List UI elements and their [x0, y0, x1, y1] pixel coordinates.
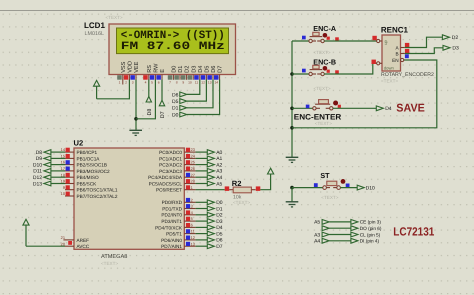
wire VCC to AVCC [26, 245, 65, 247]
wire U2 PD4/T0/XCK to D4 [196, 226, 208, 228]
wire ENC-B to encoder down pin [324, 63, 376, 74]
U2 pin PC1/ADC1 (24) [159, 154, 196, 162]
svg-text:FM 87.60 MHz: FM 87.60 MHz [121, 41, 225, 53]
U2 pin PC2/ADC2 (25) [159, 160, 196, 168]
svg-text:6: 6 [191, 223, 193, 228]
terminal A3 to CL (pin 5) link [314, 232, 381, 238]
wire U2 RESET to R2 [196, 189, 225, 191]
svg-text:PD2/INT0: PD2/INT0 [161, 213, 182, 218]
LCD pin 14 D7 [214, 66, 224, 85]
svg-text:D7: D7 [160, 111, 166, 118]
terminal D8 (LCD RS) [146, 97, 153, 116]
LCD pin 11 D4 [194, 66, 204, 85]
svg-text:A0: A0 [216, 150, 222, 156]
U2 pin PD2/INT0 (4) [161, 210, 195, 218]
terminal D2 [442, 35, 458, 41]
power VCC arrow for R2 [268, 168, 274, 174]
wire D10 to U2 PB2/SS/OC1B [51, 164, 65, 166]
svg-text:3: 3 [132, 81, 134, 85]
svg-text:12: 12 [191, 235, 195, 240]
U2 pin AREF (21) [61, 235, 89, 243]
svg-text:5: 5 [151, 81, 153, 85]
svg-text:up: up [383, 39, 388, 44]
power VCC arrow for LCD VDD [94, 80, 100, 98]
wire ST to terminal D10 [340, 187, 357, 189]
svg-text:<TEXT>: <TEXT> [381, 78, 398, 83]
wire terminal D5 to LCD pin [187, 80, 206, 102]
U2 pin PB0/ICP1 (14) [61, 147, 98, 155]
U2 pin PC6/RESET (1) [156, 185, 196, 193]
U2 pin PB5/SCK (19) [61, 179, 98, 187]
terminal A0 (U2 PC0/ADC0) [207, 150, 222, 156]
ENC-A state square [302, 36, 306, 40]
U2 pin PC3/ADC3 (26) [159, 166, 196, 174]
terminal D9 (U2 PB1/OC1A) [36, 156, 51, 162]
svg-text:3: 3 [191, 204, 193, 209]
svg-text:D3: D3 [216, 219, 223, 225]
U2 pin PD1/TXD (3) [162, 204, 195, 212]
wire D13 to U2 PB5/SCK [51, 183, 65, 185]
svg-text:D8: D8 [147, 109, 153, 116]
svg-text:D4: D4 [216, 225, 223, 231]
svg-text:D0: D0 [172, 112, 179, 118]
terminal D10 [357, 185, 375, 191]
terminal D5 (LCD data) [172, 99, 187, 105]
wire U2 PC2/ADC2 to A2 [196, 164, 208, 166]
wire U2 PC4/ADC4/SDA to A4 [196, 176, 208, 178]
svg-text:D13: D13 [33, 181, 42, 187]
svg-text:8: 8 [176, 81, 178, 85]
U2 pin PB6/TOSC1/XTAL1 (9) [63, 185, 118, 193]
terminal A1 (U2 PC1/ADC1) [207, 156, 222, 162]
terminal D3 (U2 PD3/INT1) [207, 219, 223, 225]
terminal D3 [443, 45, 459, 51]
svg-text:D4: D4 [198, 66, 204, 73]
svg-text:D10: D10 [33, 162, 42, 168]
terminal A5 to CE (pin 3) link [314, 220, 381, 226]
terminal (unlabelled) to DO (pin 6) link [322, 226, 382, 231]
svg-text:down: down [384, 65, 395, 70]
wire bus to ENC-A [292, 40, 309, 42]
terminal D0 (LCD data) [172, 112, 187, 118]
svg-text:11: 11 [191, 229, 195, 234]
svg-text:D2: D2 [452, 35, 459, 41]
terminal D12 (U2 PB4/MISO) [33, 175, 51, 181]
svg-text:A4: A4 [314, 239, 320, 245]
svg-text:<TEXT>: <TEXT> [106, 15, 123, 20]
resistor R2 [225, 179, 261, 205]
svg-text:ATMEGA8: ATMEGA8 [101, 254, 127, 260]
svg-text:E: E [160, 69, 166, 73]
svg-text:PB3/MOSI/OC2: PB3/MOSI/OC2 [77, 169, 110, 174]
microcontroller U2 body [74, 148, 184, 249]
svg-text:AREF: AREF [77, 238, 90, 243]
svg-text:D0: D0 [172, 66, 178, 73]
wire U2 PD3/INT1 to D3 [196, 220, 208, 222]
RENC1 pin B stub [401, 49, 410, 54]
wire D11 to U2 PB3/MOSI/OC2 [51, 170, 65, 172]
svg-text:ROTARY_ENCODER2: ROTARY_ENCODER2 [381, 72, 434, 78]
terminal D7 (U2 PD7/AIN1) [207, 244, 223, 250]
svg-text:<TEXT>: <TEXT> [101, 261, 118, 266]
svg-text:A5: A5 [314, 220, 320, 226]
wire U2 PC1/ADC1 to A1 [196, 157, 208, 159]
U2 pin PD7/AIN1 (13) [161, 241, 195, 249]
wire bus to ENC-ENTER [292, 107, 313, 109]
svg-text:D1: D1 [178, 66, 184, 73]
svg-text:D11: D11 [33, 169, 42, 175]
ENC-B state square [302, 69, 306, 73]
terminal D10 (U2 PB2/SS/OC1B) [33, 162, 51, 168]
rotary encoder RENC1 body [382, 35, 401, 71]
RENC1 down pin bubble [372, 60, 383, 65]
ENC-B right state square [335, 70, 339, 74]
junction VEE/RW/ground [134, 117, 138, 121]
wire terminal D1 to LCD pin [187, 80, 213, 108]
svg-text:D6: D6 [216, 238, 223, 244]
svg-text:CL (pin 5): CL (pin 5) [360, 232, 381, 237]
svg-text:PC5/ADC5/SCL: PC5/ADC5/SCL [149, 181, 183, 186]
junction bus/ENC-B [290, 72, 294, 76]
button ENC-ENTER [313, 100, 341, 110]
svg-text:PB7/TOSC2/XTAL2: PB7/TOSC2/XTAL2 [77, 194, 118, 199]
svg-text:A1: A1 [216, 156, 222, 162]
U2 pin PB2/SS/OC1B (16) [61, 160, 107, 168]
svg-text:PB1/OC1A: PB1/OC1A [77, 156, 101, 161]
wire LCD VEE to ground [135, 80, 137, 130]
svg-text:D3: D3 [452, 46, 459, 52]
svg-text:D8: D8 [36, 150, 43, 156]
svg-text:PD1/TXD: PD1/TXD [162, 206, 182, 211]
svg-text:PC2/ADC2: PC2/ADC2 [159, 163, 182, 168]
ST right state square [346, 184, 350, 188]
svg-text:2: 2 [125, 81, 127, 85]
U2 pin PD6/AIN0 (12) [161, 235, 195, 243]
svg-text:D2: D2 [185, 66, 191, 73]
terminal D13 (U2 PB5/SCK) [33, 181, 51, 187]
power VCC arrow for AVCC [23, 219, 29, 246]
wire D8 to U2 PB0/ICP1 [51, 151, 65, 153]
wire U2 PD7/AIN1 to D7 [196, 245, 208, 247]
LCD pin 3 VEE [130, 61, 140, 84]
LCD LM016L body [109, 24, 236, 75]
terminal A5 (U2 PC5/ADC5/SCL) [207, 181, 222, 187]
wire R2 to VCC [260, 174, 270, 190]
svg-text:9: 9 [63, 185, 65, 190]
svg-text:AVCC: AVCC [77, 244, 90, 249]
svg-text:<-OMRIN-> ((ST)): <-OMRIN-> ((ST)) [121, 29, 225, 42]
svg-text:13: 13 [191, 241, 195, 246]
button ENC-B [309, 65, 330, 75]
LCD VSS stub (floating) [122, 80, 124, 85]
junction bus/ENC-ENTER [290, 107, 294, 111]
button ST [323, 179, 346, 189]
svg-text:PD3/INT1: PD3/INT1 [161, 219, 182, 224]
wire ST junction to ground [291, 188, 293, 202]
terminal D6 (U2 PD6/AIN0) [207, 238, 223, 244]
svg-text:D7: D7 [216, 244, 223, 250]
terminal D1 (LCD data) [172, 105, 187, 111]
svg-text:PB2/SS/OC1B: PB2/SS/OC1B [77, 163, 107, 168]
wire D9 to U2 PB1/OC1A [51, 157, 65, 159]
svg-text:2: 2 [191, 197, 193, 202]
U2 pin PB1/OC1A (15) [61, 154, 101, 162]
wire RENC1 A to terminal D2 [405, 37, 443, 47]
LCD screen [117, 28, 229, 54]
svg-text:PD0/RXD: PD0/RXD [162, 200, 183, 205]
terminal A4 to DI (pin 4) link [314, 238, 379, 244]
wire RENC1 EN to bus [292, 60, 437, 128]
svg-text:19: 19 [61, 179, 65, 184]
svg-text:D9: D9 [36, 156, 43, 162]
svg-text:A5: A5 [216, 181, 222, 187]
wire U2 PD5/T1 to D5 [196, 233, 208, 235]
junction ST/ground [290, 186, 294, 190]
wire D12 to U2 PB4/MISO [51, 176, 65, 178]
svg-text:PC6/RESET: PC6/RESET [156, 188, 182, 193]
terminal D11 (U2 PB3/MOSI/OC2) [33, 169, 51, 175]
svg-text:PB4/MISO: PB4/MISO [77, 175, 99, 180]
junction bus/encoder EN [290, 126, 294, 130]
U2 pin PB3/MOSI/OC2 (17) [61, 166, 110, 174]
svg-text:PC4/ADC4/SDA: PC4/ADC4/SDA [148, 175, 183, 180]
svg-text:14: 14 [214, 81, 218, 85]
svg-text:11: 11 [195, 81, 199, 85]
LCD pin 12 D5 [201, 66, 211, 85]
terminal D1 (U2 PD1/TXD) [207, 206, 223, 212]
svg-text:12: 12 [201, 81, 205, 85]
U2 pin PD5/T1 (11) [166, 229, 196, 237]
ENC-A right state square [335, 37, 339, 41]
wire U2 PD1/TXD to D1 [196, 208, 208, 210]
svg-text:PD6/AIN0: PD6/AIN0 [161, 238, 182, 243]
RENC1 up pin bubble [372, 36, 382, 43]
svg-text:<TEXT>: <TEXT> [233, 200, 250, 205]
svg-text:VEE: VEE [134, 61, 140, 72]
ground for ST [286, 201, 299, 203]
svg-text:PB0/ICP1: PB0/ICP1 [77, 150, 98, 155]
svg-text:PB5/SCK: PB5/SCK [77, 181, 98, 186]
svg-text:13: 13 [208, 81, 212, 85]
svg-text:PC0/ADC0: PC0/ADC0 [159, 150, 182, 155]
terminal D6 (LCD data) [172, 92, 187, 98]
terminal D0 (U2 PD0/RXD) [207, 200, 223, 206]
svg-text:26: 26 [191, 166, 195, 171]
ST left state square [314, 183, 318, 187]
svg-text:LCD1: LCD1 [84, 21, 105, 30]
wire LCD RS to terminal D8 [148, 80, 150, 97]
terminal D7 (LCD E) [159, 100, 166, 118]
svg-text:D5: D5 [205, 66, 211, 73]
wire RENC1 B to terminal D3 [405, 48, 443, 54]
svg-text:RS: RS [147, 65, 153, 73]
terminal D2 (U2 PD2/INT0) [207, 212, 223, 218]
svg-text:D4: D4 [385, 106, 392, 112]
wire LCD RW to junction [136, 80, 155, 119]
LCD pin 1 VSS [117, 61, 127, 84]
wire VCC to LCD VDD [97, 80, 130, 99]
svg-text:PB6/TOSC1/XTAL1: PB6/TOSC1/XTAL1 [77, 188, 118, 193]
LCD pin 7 D0 [168, 66, 178, 85]
wire junction to ST [292, 187, 323, 189]
LCD pin 2 VDD [124, 61, 134, 85]
wire U2 PC5/ADC5/SCL to A5 [196, 183, 208, 185]
U2 pin PD0/RXD (2) [162, 197, 196, 205]
svg-text:D1: D1 [216, 206, 223, 212]
svg-text:B: B [395, 51, 398, 56]
svg-text:U2: U2 [74, 138, 84, 147]
svg-text:<TEXT>: <TEXT> [315, 121, 332, 126]
svg-text:4: 4 [145, 81, 147, 85]
svg-text:A2: A2 [216, 162, 222, 168]
svg-text:1: 1 [119, 81, 121, 85]
svg-text:PD4/T0/XCK: PD4/T0/XCK [155, 225, 183, 230]
svg-text:27: 27 [191, 172, 195, 177]
ground for LCD VEE/RW [129, 129, 142, 131]
svg-text:5: 5 [191, 216, 193, 221]
svg-text:SAVE: SAVE [396, 103, 425, 115]
svg-text:D3: D3 [191, 66, 197, 73]
svg-text:EN: EN [392, 58, 399, 63]
svg-text:15: 15 [61, 154, 65, 159]
wire ENC-A to encoder up pin [324, 40, 376, 42]
terminal A3 (U2 PC3/ADC3) [207, 169, 222, 175]
LCD pin 9 D2 [181, 66, 191, 85]
svg-text:17: 17 [61, 166, 65, 171]
ENC-ENTER state square [306, 105, 310, 109]
svg-text:D5: D5 [216, 231, 223, 237]
svg-text:10: 10 [188, 81, 192, 85]
svg-text:<TEXT>: <TEXT> [314, 50, 331, 55]
wire bus to ENC-B [292, 73, 309, 75]
LCD pin 5 RW [150, 63, 160, 85]
svg-text:D7: D7 [218, 66, 224, 73]
svg-text:DI (pin 4): DI (pin 4) [360, 239, 380, 244]
svg-text:7: 7 [169, 81, 171, 85]
svg-text:<TEXT>: <TEXT> [314, 86, 331, 91]
terminal D5 (U2 PD5/T1) [207, 231, 223, 237]
terminal D8 (U2 PB0/ICP1) [36, 150, 51, 156]
button ENC-A [309, 32, 330, 42]
svg-text:RW: RW [154, 63, 160, 73]
wire ENC-ENTER to terminal D4 [333, 107, 376, 109]
svg-text:1: 1 [191, 185, 193, 190]
svg-text:D6: D6 [211, 66, 217, 73]
svg-text:PC3/ADC3: PC3/ADC3 [159, 169, 182, 174]
svg-text:D12: D12 [33, 175, 42, 181]
svg-text:28: 28 [191, 179, 195, 184]
terminal D4 [376, 106, 392, 112]
bus wire (button common / ground) [291, 41, 293, 157]
ground for button bus [286, 156, 299, 158]
wire U2 PD6/AIN0 to D6 [196, 239, 208, 241]
svg-text:21: 21 [61, 235, 65, 240]
wire U2 PD0/RXD to D0 [196, 201, 208, 203]
LCD pin 6 E [156, 69, 166, 85]
svg-text:VDD: VDD [128, 61, 134, 73]
RENC1 pin EN bubble [401, 54, 409, 61]
terminal D4 (U2 PD4/T0/XCK) [207, 225, 223, 231]
LCD pin 8 D1 [174, 66, 184, 85]
U2 pin PD3/INT1 (5) [161, 216, 195, 224]
svg-text:VSS: VSS [121, 61, 127, 72]
U2 pin PC5/ADC5/SCL (28) [149, 179, 196, 187]
LCD pin 4 RS [143, 65, 153, 85]
svg-text:25: 25 [191, 160, 195, 165]
svg-text:18: 18 [61, 172, 65, 177]
LCD pin 10 D3 [188, 66, 198, 85]
svg-text:D10: D10 [366, 185, 375, 191]
svg-text:9: 9 [182, 81, 184, 85]
U2 pin AVCC (20) [61, 241, 90, 249]
svg-text:PD5/T1: PD5/T1 [166, 232, 182, 237]
svg-text:RENC1: RENC1 [381, 26, 409, 35]
svg-text:ST: ST [320, 171, 330, 180]
svg-text:A4: A4 [216, 175, 222, 181]
svg-text:23: 23 [191, 147, 195, 152]
svg-text:DO (pin 6): DO (pin 6) [360, 226, 382, 231]
LCD pin 13 D6 [207, 66, 217, 85]
svg-text:A3: A3 [216, 169, 222, 175]
svg-text:<TEXT>: <TEXT> [321, 195, 338, 200]
svg-text:D5: D5 [172, 99, 179, 105]
wire U2 PC0/ADC0 to A0 [196, 151, 208, 153]
wire U2 PC3/ADC3 to A3 [196, 170, 208, 172]
terminal A4 (U2 PC4/ADC4/SDA) [207, 175, 222, 181]
terminal A2 (U2 PC2/ADC2) [207, 162, 222, 168]
U2 pin PC4/ADC4/SDA (27) [148, 172, 195, 180]
sheet top border [0, 10, 474, 12]
svg-text:6: 6 [158, 81, 160, 85]
svg-text:CE (pin 3): CE (pin 3) [360, 220, 382, 225]
svg-text:D1: D1 [172, 106, 179, 112]
svg-text:16: 16 [61, 160, 65, 165]
svg-text:LC72131: LC72131 [393, 224, 434, 238]
svg-text:D0: D0 [216, 200, 223, 206]
wire terminal D6 to LCD pin [187, 80, 200, 95]
svg-text:A3: A3 [314, 232, 320, 238]
wire U2 PD2/INT0 to D2 [196, 214, 208, 216]
svg-text:D6: D6 [172, 92, 179, 98]
svg-text:PC1/ADC1: PC1/ADC1 [159, 156, 182, 161]
U2 pin PC0/ADC0 (23) [159, 147, 196, 155]
wire LCD E to terminal D7 [161, 80, 163, 101]
U2 pin PD4/T0/XCK (6) [155, 223, 195, 231]
U2 pin PB4/MISO (18) [61, 172, 99, 180]
svg-text:PD7/AIN1: PD7/AIN1 [161, 244, 182, 249]
svg-text:LM016L: LM016L [85, 31, 104, 37]
U2 pin PB7/TOSC2/XTAL2 (10) [61, 191, 118, 199]
wire terminal D0 to LCD pin [187, 80, 220, 115]
RENC1 pin A stub [401, 43, 410, 48]
svg-text:D2: D2 [216, 213, 223, 219]
